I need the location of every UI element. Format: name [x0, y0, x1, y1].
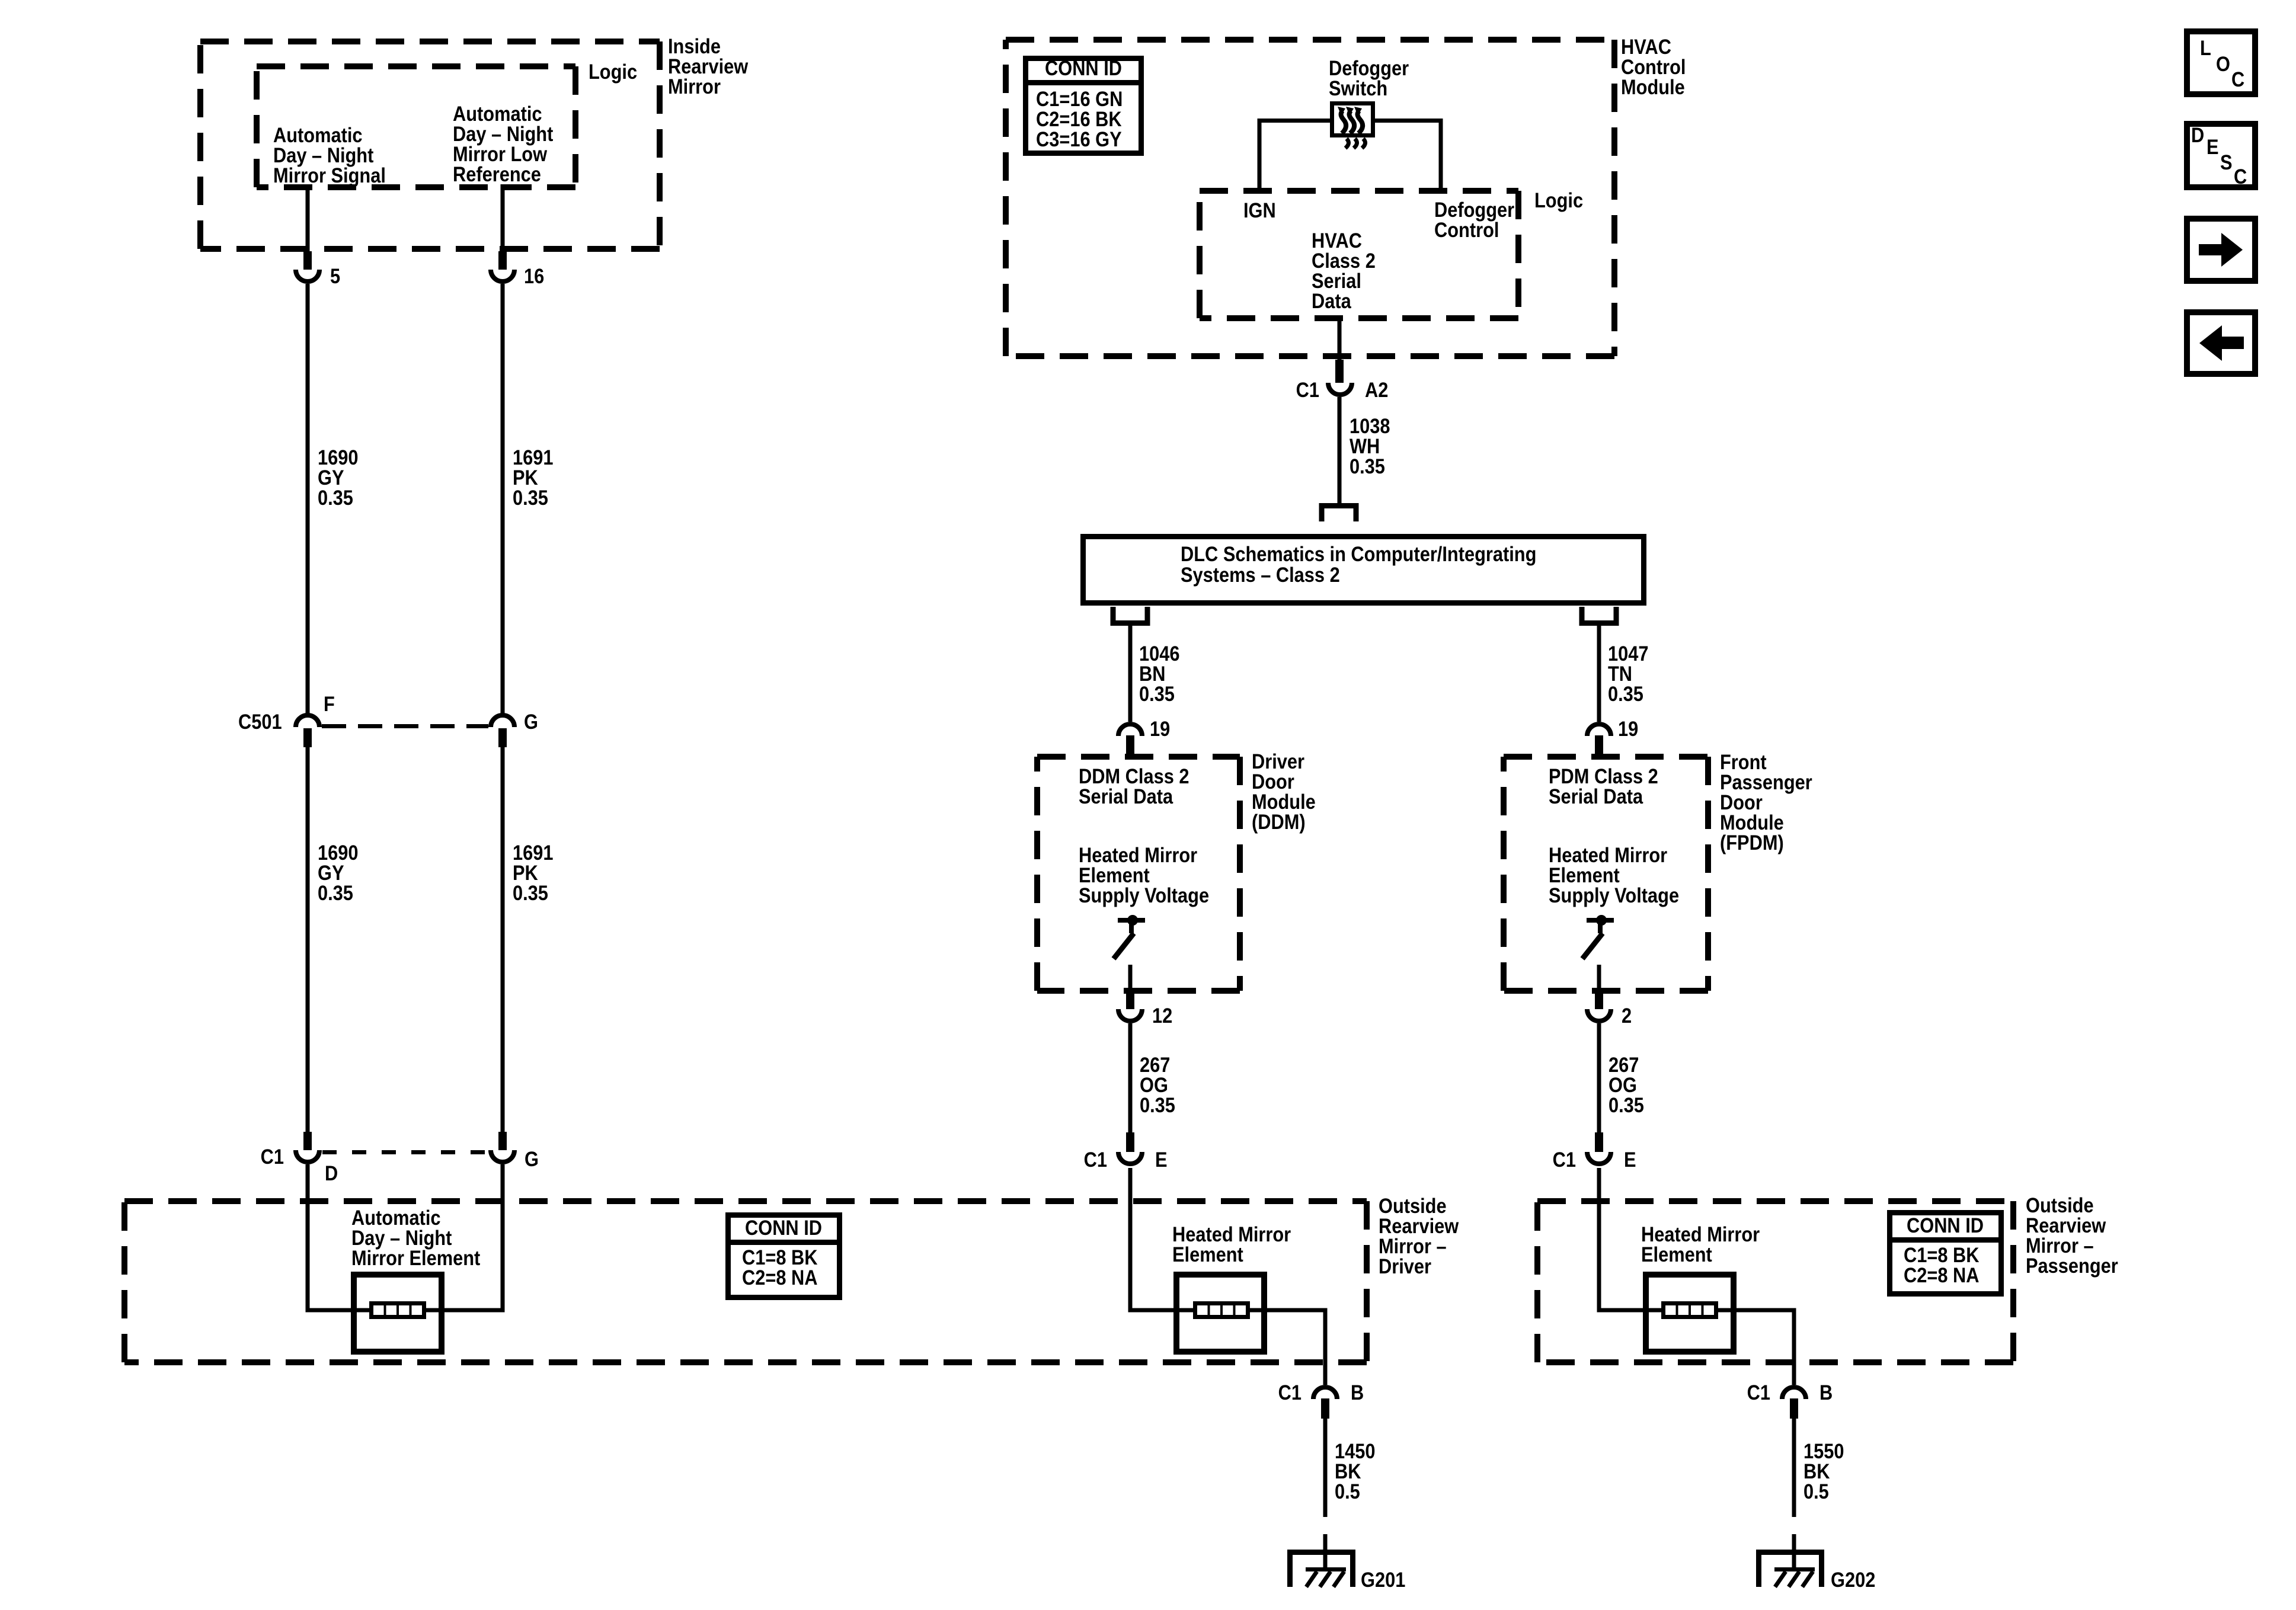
- svg-text:CONN ID: CONN ID: [1907, 1214, 1984, 1237]
- svg-text:Mirror Element: Mirror Element: [351, 1246, 480, 1269]
- svg-text:Mirror Signal: Mirror Signal: [273, 164, 386, 187]
- svg-text:C1: C1: [1084, 1148, 1107, 1171]
- svg-text:DLC Schematics in Computer/Int: DLC Schematics in Computer/Integrating: [1181, 542, 1536, 565]
- svg-text:B: B: [1819, 1381, 1833, 1404]
- svg-text:19: 19: [1618, 717, 1638, 740]
- svg-text:0.35: 0.35: [1140, 1093, 1175, 1116]
- svg-text:Supply Voltage: Supply Voltage: [1079, 884, 1209, 907]
- svg-text:0.35: 0.35: [1609, 1093, 1644, 1116]
- svg-text:C2=8 NA: C2=8 NA: [1904, 1263, 1979, 1286]
- svg-text:Serial Data: Serial Data: [1079, 785, 1173, 808]
- svg-text:CONN ID: CONN ID: [745, 1216, 822, 1239]
- svg-text:Passenger: Passenger: [2026, 1254, 2118, 1277]
- svg-text:C1: C1: [261, 1145, 284, 1168]
- svg-text:F: F: [324, 692, 335, 715]
- svg-text:G: G: [524, 710, 538, 733]
- svg-text:0.35: 0.35: [513, 881, 548, 904]
- svg-text:(DDM): (DDM): [1252, 810, 1306, 833]
- svg-text:O: O: [2216, 52, 2230, 75]
- svg-text:C1: C1: [1553, 1148, 1576, 1171]
- svg-text:G: G: [525, 1147, 539, 1170]
- svg-text:A2: A2: [1365, 378, 1388, 401]
- svg-text:0.35: 0.35: [318, 486, 353, 509]
- svg-text:Data: Data: [1312, 289, 1351, 312]
- svg-text:Switch: Switch: [1329, 76, 1387, 100]
- svg-text:Supply Voltage: Supply Voltage: [1549, 884, 1679, 907]
- svg-text:G201: G201: [1361, 1568, 1405, 1591]
- svg-text:C1: C1: [1747, 1381, 1770, 1404]
- svg-text:Element: Element: [1172, 1243, 1243, 1266]
- svg-text:2: 2: [1622, 1004, 1632, 1027]
- svg-text:CONN ID: CONN ID: [1045, 56, 1122, 79]
- svg-text:L: L: [2200, 36, 2211, 59]
- svg-text:0.35: 0.35: [318, 881, 353, 904]
- svg-text:Mirror: Mirror: [668, 75, 721, 98]
- svg-text:(FPDM): (FPDM): [1720, 831, 1784, 854]
- svg-text:B: B: [1351, 1381, 1364, 1404]
- svg-text:Logic: Logic: [589, 60, 637, 83]
- svg-text:12: 12: [1152, 1004, 1172, 1027]
- svg-text:C501: C501: [238, 710, 282, 733]
- svg-text:C3=16 GY: C3=16 GY: [1036, 127, 1122, 151]
- svg-text:C: C: [2231, 68, 2244, 91]
- svg-text:0.35: 0.35: [1350, 454, 1385, 478]
- svg-text:C1: C1: [1296, 378, 1319, 401]
- svg-text:Module: Module: [1621, 75, 1685, 98]
- svg-text:E: E: [1624, 1148, 1636, 1171]
- svg-text:C2=8 NA: C2=8 NA: [742, 1266, 817, 1289]
- svg-text:D: D: [2191, 123, 2204, 146]
- svg-text:16: 16: [524, 264, 544, 287]
- svg-text:S: S: [2220, 151, 2233, 174]
- svg-text:0.35: 0.35: [1608, 682, 1643, 705]
- svg-text:E: E: [2207, 135, 2219, 158]
- svg-text:Systems – Class 2: Systems – Class 2: [1181, 563, 1340, 586]
- svg-text:C1: C1: [1278, 1381, 1302, 1404]
- svg-text:Serial Data: Serial Data: [1549, 785, 1643, 808]
- svg-text:D: D: [325, 1161, 338, 1185]
- svg-text:0.35: 0.35: [1139, 682, 1175, 705]
- svg-text:0.35: 0.35: [513, 486, 548, 509]
- svg-text:IGN: IGN: [1243, 199, 1276, 222]
- svg-text:Element: Element: [1641, 1243, 1712, 1266]
- svg-text:Control: Control: [1434, 218, 1499, 241]
- svg-text:G202: G202: [1831, 1568, 1875, 1591]
- svg-text:Driver: Driver: [1379, 1254, 1431, 1278]
- svg-text:5: 5: [330, 264, 340, 287]
- svg-text:C: C: [2234, 165, 2247, 188]
- svg-text:0.5: 0.5: [1335, 1480, 1360, 1503]
- svg-text:E: E: [1155, 1148, 1168, 1171]
- svg-text:0.5: 0.5: [1803, 1480, 1829, 1503]
- svg-text:Logic: Logic: [1534, 188, 1583, 212]
- svg-text:Reference: Reference: [453, 162, 541, 185]
- svg-text:19: 19: [1150, 717, 1170, 740]
